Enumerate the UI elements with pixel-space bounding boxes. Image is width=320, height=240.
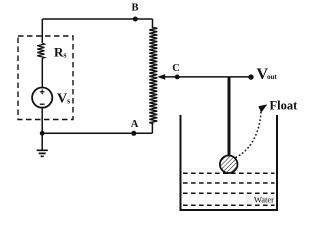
svg-text:B: B [131, 3, 138, 14]
float pointer arrowhead [258, 104, 267, 112]
water line 3 [183, 192, 275, 194]
svg-text:Water: Water [254, 195, 274, 205]
potentiometer body [149, 28, 157, 124]
water line 4 [183, 204, 275, 206]
float ball [220, 156, 238, 174]
ground [37, 150, 48, 156]
dashed source box [18, 36, 73, 120]
minus sign [40, 103, 45, 105]
node B [133, 17, 138, 22]
wire right vertical bottom stub [151, 124, 154, 134]
wire source to ground junction [41, 108, 43, 151]
node C [175, 75, 180, 80]
float rod [228, 77, 231, 156]
node A [131, 131, 136, 136]
wire left vertical to resistor [41, 19, 43, 43]
svg-text:C: C [172, 63, 180, 74]
junction node [40, 131, 45, 136]
voltage source V_s [32, 88, 52, 108]
wiper wire C to Vout [163, 76, 252, 78]
svg-text:Rs: Rs [54, 45, 67, 60]
plus sign [40, 89, 45, 94]
label Water [246, 195, 276, 204]
svg-text:Float: Float [270, 99, 299, 113]
svg-text:Vs: Vs [57, 91, 70, 106]
wire resistor to source [41, 58, 43, 87]
wire top horizontal [43, 18, 153, 20]
water line 1 [183, 172, 275, 174]
wire bottom horizontal [42, 132, 152, 134]
resistor R_s [37, 43, 44, 58]
svg-text:out: out [267, 73, 277, 81]
svg-text:A: A [131, 119, 139, 130]
node Vout [248, 74, 253, 79]
tank [181, 115, 278, 210]
water line 2 [183, 182, 275, 184]
wiper arrowhead [157, 74, 165, 80]
float pointer curve [235, 113, 261, 158]
wire right vertical top stub [152, 19, 155, 28]
